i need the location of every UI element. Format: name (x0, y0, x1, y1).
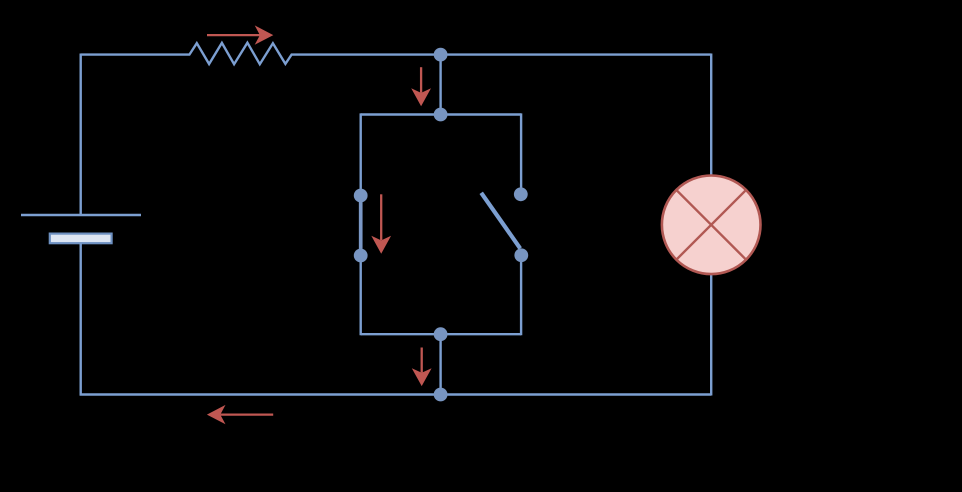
switch S1 closed blade (359, 196, 363, 256)
lamp L1 cross stroke 2 (677, 190, 746, 259)
switch S2 open blade (481, 193, 520, 249)
wire: left vertical from top wire down to battery positive plate (79, 54, 81, 216)
wire: right branch lower segment from switch S2 bottom contact (520, 255, 522, 335)
wire: top-left loop with resistor zigzag inline (81, 43, 712, 64)
node: switch S2 top contact (514, 187, 528, 201)
node: parallel box top junction (434, 108, 448, 122)
node: parallel box bottom junction (434, 327, 448, 341)
wire: right vertical from top wire down to lamp (710, 54, 712, 177)
wire: parallel box top rail (361, 113, 521, 115)
node: switch S2 bottom contact (514, 248, 528, 262)
current arrow on bottom return wire (leftward) (207, 405, 273, 424)
wire: left branch vertical (through closed switch S1) (360, 113, 362, 335)
current arrow over resistor (rightward) (207, 25, 273, 44)
battery B1 positive long plate (21, 214, 141, 217)
wire: left vertical from battery negative plate down to bottom wire (79, 243, 81, 395)
node: switch S1 top contact (354, 189, 368, 203)
node: bottom wire junction (434, 388, 448, 402)
battery B1 negative short plate (50, 234, 112, 244)
node: top junction on top wire (434, 48, 448, 62)
current arrow through closed switch branch (downward) (371, 194, 391, 253)
wire: stub from parallel box bottom to bottom wire (439, 334, 441, 394)
wire: right vertical from lamp down to bottom wire (710, 274, 712, 396)
current arrow into parallel box (downward) (411, 67, 431, 106)
wire: right branch upper segment to switch S2 top contact (520, 113, 522, 194)
node: switch S1 bottom contact (354, 249, 368, 263)
wire: stub from top junction node down to parallel box top (439, 55, 441, 115)
wire: bottom horizontal return wire (80, 393, 712, 395)
lamp L1 cross stroke 1 (677, 190, 746, 259)
lamp L1 body (662, 176, 761, 275)
wire: parallel box bottom rail (361, 333, 521, 335)
current arrow out of parallel box (downward) (412, 348, 432, 387)
